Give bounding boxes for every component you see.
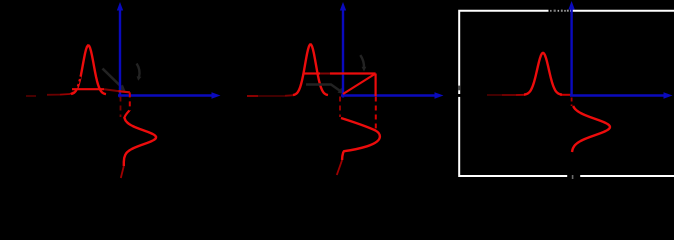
panel 1 horizontal axis bbox=[118, 92, 221, 98]
panel 2 horizontal construction line from pulse flank bbox=[304, 72, 320, 74]
panel 2 faint input baseline (left) bbox=[247, 94, 294, 97]
panel 1 gray mapping arrow (straight) bbox=[103, 69, 126, 92]
panel 3 horizontal axis bbox=[570, 92, 673, 98]
panel 3 left border label smudge bbox=[458, 86, 460, 91]
panel 3 top border label gap bbox=[549, 9, 571, 14]
panel 2 dashed drop line at axis bbox=[339, 97, 341, 118]
panel 2 dashed drop line right bbox=[375, 97, 377, 129]
panel 3 bright baseline right of pulse bbox=[560, 94, 571, 96]
panel 3 faint input baseline bbox=[487, 94, 525, 96]
panel 2 horizontal axis bbox=[341, 92, 444, 98]
panel 3 bottom border label ghost bbox=[572, 175, 574, 179]
panel 1 input pulse I(t) bbox=[71, 45, 106, 94]
panel 1 vertical axis bbox=[117, 2, 123, 98]
panel 3 chirp sideways pulse bbox=[572, 106, 610, 152]
panel 3 bottom border label gap bbox=[567, 174, 580, 179]
panel 1 faint input baseline (left) bbox=[26, 92, 74, 96]
panel 3 left border axis gap bbox=[458, 94, 461, 97]
panel 2 input pulse I(t) bbox=[293, 45, 328, 96]
panel 1 pulse left flank dashed overlay bbox=[76, 77, 80, 89]
panel 3 output pulse I(t) bbox=[524, 53, 562, 95]
panel 2 gray curved arrow bbox=[360, 55, 366, 71]
panel 2 output steepened sideways pulse bbox=[337, 118, 380, 175]
panel 2 solid drop from corner bbox=[375, 74, 377, 97]
panel 1 construction line from pulse flank to drop corner bbox=[72, 88, 104, 90]
panel 3 vertical axis bbox=[568, 1, 574, 97]
panel 2 gray mapping arrow (bent) bbox=[306, 85, 345, 95]
panel 3 top border label ghost bbox=[550, 10, 569, 12]
panel 3 small dashes below origin bbox=[571, 98, 573, 107]
panel 1 output sideways pulse bbox=[121, 111, 156, 179]
panel 3 white frame box bbox=[459, 11, 674, 176]
panel 2 vertical axis bbox=[340, 2, 346, 98]
panel 2 transfer diagonal line bbox=[343, 74, 376, 95]
panel 1 dashed drop line at axis bbox=[120, 97, 122, 118]
panel 1 gray curved arrow bbox=[137, 64, 142, 81]
panel 1 dashed drop line right bbox=[129, 92, 131, 111]
